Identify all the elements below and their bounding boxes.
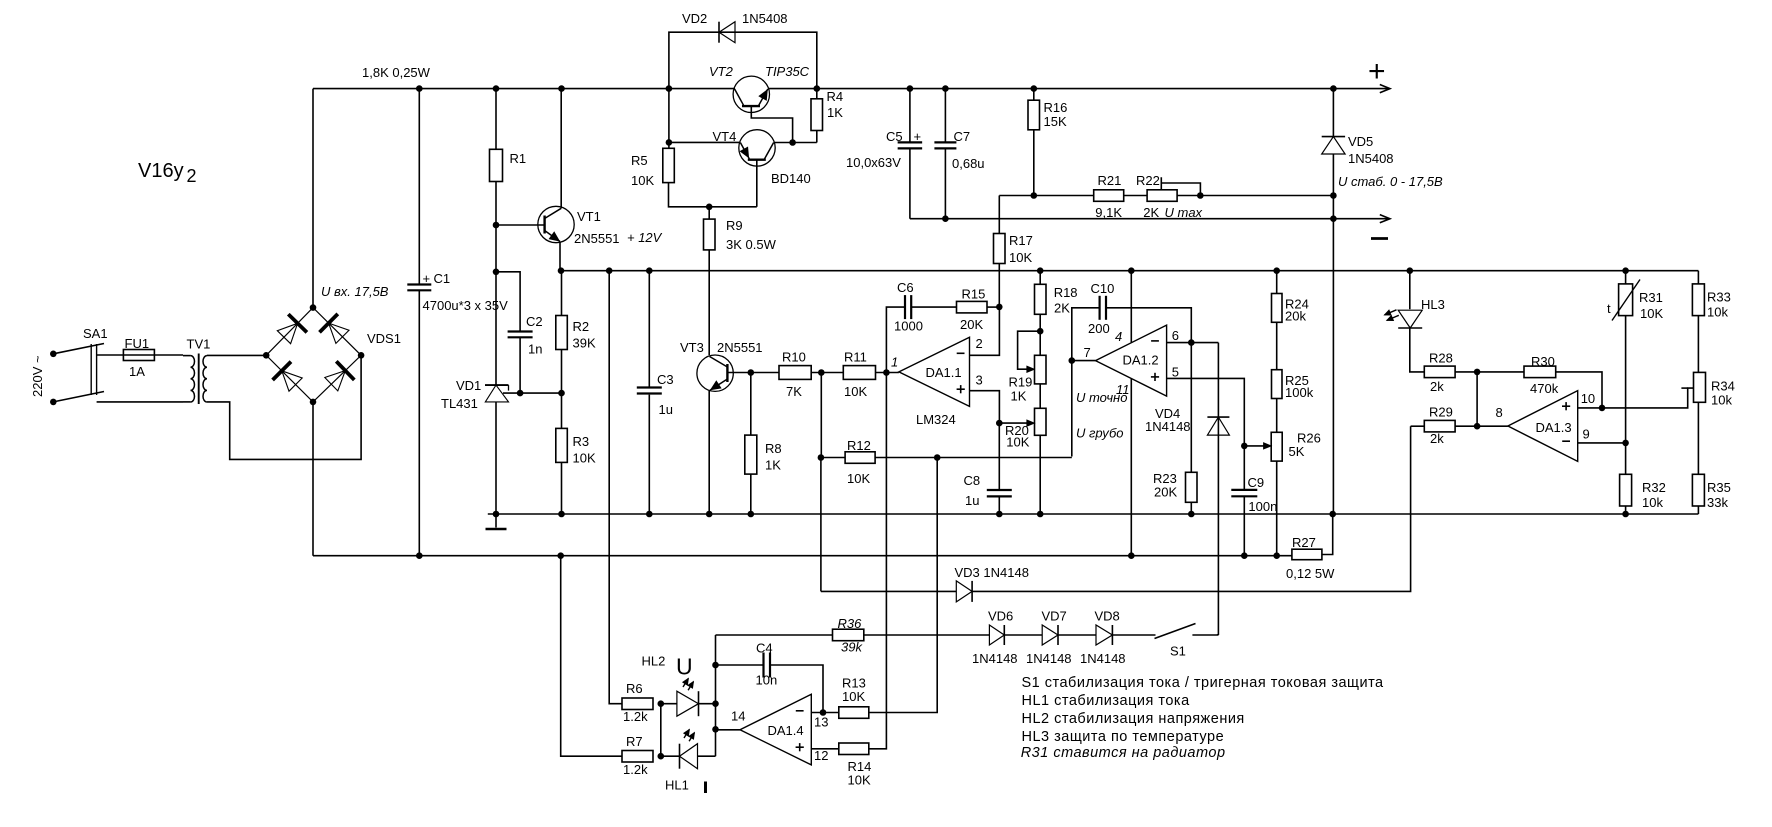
wire pin13 row (811, 712, 839, 714)
svg-text:VT3: VT3 (680, 340, 704, 355)
svg-text:5K: 5K (1289, 444, 1305, 459)
svg-text:R9: R9 (726, 218, 743, 233)
wire VD4 vertical (1217, 343, 1219, 635)
svg-text:R1: R1 (510, 151, 527, 166)
resistor R3 (556, 428, 568, 462)
wire TL431 ref row (503, 392, 562, 394)
svg-text:R2: R2 (573, 319, 590, 334)
svg-text:39k: 39k (841, 640, 863, 655)
potentiometer R34 (1694, 372, 1706, 402)
svg-text:12: 12 (814, 748, 828, 763)
capacitor C1 (407, 285, 431, 291)
svg-text:0,12 5W: 0,12 5W (1286, 566, 1335, 581)
svg-text:DA1.4: DA1.4 (768, 723, 804, 738)
resistor R35 (1692, 474, 1704, 506)
wire C10 riser (1072, 308, 1192, 457)
wire HL3 to R28 (1410, 328, 1425, 372)
svg-text:t: t (1607, 301, 1611, 316)
svg-text:R12: R12 (847, 438, 871, 453)
wire HL3 top lead (1409, 271, 1411, 310)
capacitor C8 (987, 490, 1012, 496)
svg-text:R32: R32 (1642, 480, 1666, 495)
svg-text:2N5551: 2N5551 (717, 340, 763, 355)
diode VD5 (1322, 137, 1345, 154)
resistor R16 (1028, 100, 1040, 130)
resistor R29 (1424, 420, 1455, 432)
wire HL2 leads (661, 703, 716, 705)
svg-text:1N4148: 1N4148 (1145, 419, 1191, 434)
svg-text:7: 7 (1084, 345, 1091, 360)
wire C3 vertical (648, 271, 650, 514)
svg-text:R31: R31 (1639, 290, 1663, 305)
resistor R28 (1424, 366, 1455, 378)
op-amp DA1.3 (1508, 391, 1578, 462)
svg-text:+ 12V: + 12V (627, 230, 663, 245)
wire +12V rail (561, 270, 1698, 272)
wire DA1.4 input riser (715, 635, 717, 756)
wire VD8 to S1 (1112, 634, 1155, 636)
potentiometer R20 (1035, 408, 1047, 435)
svg-text:C9: C9 (1248, 475, 1265, 490)
diode VD3 (956, 581, 972, 602)
svg-text:0,68u: 0,68u (952, 156, 985, 171)
minus sign DA1.1 (957, 352, 965, 354)
svg-text:R29: R29 (1429, 405, 1453, 420)
svg-text:1,8K 0,25W: 1,8K 0,25W (362, 65, 431, 80)
svg-text:39K: 39K (573, 336, 596, 351)
node: VT1 base at R1 (493, 222, 500, 229)
potentiometer R19 (1035, 355, 1047, 384)
svg-text:R16: R16 (1044, 100, 1068, 115)
resistor R24 (1272, 294, 1283, 323)
wire SA1 to TV1 primary bottom (97, 401, 183, 403)
resistor R27 (1292, 549, 1322, 560)
resistor R9 (704, 219, 716, 250)
wire R24 top (1276, 271, 1278, 294)
svg-text:S1: S1 (1170, 644, 1186, 659)
node: junctions on ground rail (493, 511, 1629, 518)
svg-text:10K: 10K (1006, 435, 1029, 450)
op-amp DA1.2 (1096, 325, 1167, 396)
fuse FU1 (123, 350, 154, 361)
svg-text:5: 5 (1172, 365, 1179, 380)
plus sign DA1.1 (957, 385, 965, 393)
wire R15 to R17 node (987, 306, 999, 308)
svg-text:VD7: VD7 (1042, 609, 1067, 624)
wire C7 vertical (944, 89, 946, 219)
svg-text:20K: 20K (960, 317, 983, 332)
node: pin6/R23/C10 (1188, 339, 1195, 346)
svg-text:1n: 1n (528, 342, 542, 357)
svg-text:R15: R15 (962, 287, 986, 302)
svg-text:1N4148: 1N4148 (1026, 651, 1072, 666)
wire R1 bottom to TL431 (495, 182, 497, 386)
svg-text:14: 14 (731, 709, 745, 724)
wire bridge bottom vertex down to minus rail (312, 402, 314, 556)
svg-text:3K 0.5W: 3K 0.5W (726, 237, 777, 252)
wire R16 top (1033, 89, 1035, 101)
wire DA1.1 pin3 (970, 391, 1000, 423)
svg-text:C10: C10 (1091, 281, 1115, 296)
node: C7 bottom (942, 215, 949, 222)
minus sign DA1.3 (1562, 440, 1570, 442)
wire R2 top (561, 271, 563, 316)
minus sign DA1.2 (1151, 340, 1159, 342)
resistor R15 (957, 301, 988, 313)
svg-text:4: 4 (1115, 329, 1122, 344)
svg-text:7K: 7K (786, 384, 802, 399)
wire R21 rail (999, 195, 1333, 197)
svg-text:100n: 100n (1248, 499, 1277, 514)
wire C2 jog (496, 272, 520, 393)
resistor R17 (994, 234, 1006, 264)
svg-text:10k: 10k (1707, 305, 1728, 320)
svg-text:U вх. 17,5В: U вх. 17,5В (321, 284, 389, 299)
ground symbol (486, 514, 507, 529)
svg-text:10K: 10K (844, 384, 867, 399)
wire DA1.3 pin9 row (1578, 442, 1626, 444)
wire minus sense rail (313, 555, 1292, 557)
node: R18/R19 top tap (1037, 328, 1044, 335)
transformer TV1 (183, 354, 207, 405)
svg-text:VD1: VD1 (456, 378, 481, 393)
wire DA1.4 pin14 (716, 729, 741, 731)
wire VD2 loop (669, 32, 817, 88)
shunt regulator VD1 TL431 (485, 385, 509, 402)
svg-text:2K: 2K (1143, 205, 1159, 220)
wire R10-R11 node down to VD3 row (820, 373, 822, 592)
svg-text:DA1.3: DA1.3 (1536, 420, 1572, 435)
wire VT3 emitter (708, 391, 710, 515)
wire R11 to DA1.1 pin1 (876, 372, 899, 374)
svg-text:U точно: U точно (1076, 390, 1127, 405)
transistor VT2 TIP35C (733, 76, 793, 142)
node: pin10/R30 (1599, 405, 1606, 412)
svg-text:R17: R17 (1009, 233, 1033, 248)
wire VD6 to VD7 (1004, 634, 1042, 636)
svg-text:R18: R18 (1054, 285, 1078, 300)
wire DA1.2 pin6 row (1167, 342, 1219, 344)
svg-text:HL3: HL3 (1421, 297, 1445, 312)
capacitor C4 (764, 653, 771, 678)
wire R5 bottom to R9 row (669, 183, 757, 207)
wire R34-R35 (1697, 402, 1699, 474)
resistor R23 (1186, 472, 1198, 502)
wire R16 bottom (1033, 130, 1035, 196)
svg-text:HL1 стабилизация тока: HL1 стабилизация тока (1022, 693, 1191, 709)
svg-text:100k: 100k (1285, 385, 1314, 400)
wire R27 right to ground rail (1322, 514, 1333, 555)
svg-text:R19: R19 (1009, 375, 1033, 390)
wire C4 row (716, 665, 824, 713)
node: bridge vertices (263, 304, 365, 405)
LED HL2 (677, 679, 699, 717)
wire DA1.2 pin4 stub (1130, 271, 1132, 343)
wire R23 top (1190, 343, 1192, 473)
node: R15/R17/pin2 (996, 304, 1003, 311)
svg-text:+: + (914, 129, 922, 144)
svg-text:R31 ставится на радиатор: R31 ставится на радиатор (1021, 745, 1226, 761)
resistor R1 (490, 149, 503, 181)
svg-text:10n: 10n (756, 673, 778, 688)
svg-text:TL431: TL431 (441, 396, 478, 411)
node: pin7/C10 (1069, 357, 1076, 364)
bridge rectifier VDS1 diode bottom-right (325, 361, 355, 391)
svg-text:2N5551: 2N5551 (574, 231, 620, 246)
svg-text:1K: 1K (827, 105, 843, 120)
transistor VT4 BD140 (739, 130, 775, 207)
svg-text:20k: 20k (1285, 309, 1306, 324)
node: C2 top on R1 line (493, 269, 500, 276)
svg-text:FU1: FU1 (125, 336, 150, 351)
resistor R18 (1035, 284, 1047, 314)
transistor VT1 2N5551 (538, 206, 574, 242)
wire pin9 node to R32 (1625, 443, 1627, 474)
wire R1 top (495, 89, 497, 150)
svg-text:R30: R30 (1531, 354, 1555, 369)
wire R19 to R20 (1039, 384, 1041, 408)
svg-text:470k: 470k (1530, 381, 1559, 396)
resistor R32 (1620, 474, 1632, 506)
wire R18 bottom to R19 (1039, 314, 1041, 355)
wire R31 top (1625, 271, 1627, 284)
svg-text:U грубо: U грубо (1076, 426, 1124, 441)
svg-text:VT1: VT1 (577, 209, 601, 224)
arrow R19 wiper (1027, 366, 1034, 372)
wire R19 wiper loop (1018, 331, 1041, 369)
wire R28-R29 riser (1476, 372, 1478, 426)
wire TV1 secondary bottom to bridge right vertex (207, 355, 361, 459)
resistor R21 (1094, 190, 1124, 202)
wire C9 vertical (1243, 446, 1245, 556)
wire R20 wiper (999, 422, 1030, 424)
svg-text:R10: R10 (782, 350, 806, 365)
wire R26 wiper (1244, 445, 1266, 447)
wire R35 bottom to ground rail (1697, 506, 1699, 514)
wire bridge top vertex to +unreg rail corner (312, 89, 314, 308)
resistor R6 (622, 698, 653, 710)
node: VT3 base / R8 / R10 (748, 369, 755, 376)
trimmer R22 (1147, 190, 1177, 202)
svg-text:R35: R35 (1707, 480, 1731, 495)
plus sign DA1.4 (796, 743, 804, 751)
svg-text:1N4148: 1N4148 (972, 651, 1018, 666)
transistor VT3 2N5551 (697, 355, 733, 391)
wire minus arrow line (1333, 218, 1389, 220)
svg-text:10: 10 (1581, 391, 1595, 406)
svg-text:C5: C5 (886, 129, 903, 144)
wire R17 top from R21 rail (998, 196, 1000, 234)
svg-text:R36: R36 (838, 616, 863, 631)
resistor R4 (811, 99, 823, 131)
svg-text:R3: R3 (573, 434, 590, 449)
wire C8 vertical (998, 423, 1000, 514)
resistor R33 (1692, 284, 1704, 316)
wire R3 top (561, 393, 563, 428)
node: ref row junctions (517, 390, 565, 397)
wire TL431 cathode down to gnd rail (495, 402, 497, 514)
wire R33-R34 (1697, 316, 1699, 373)
svg-text:20K: 20K (1154, 485, 1177, 500)
capacitor C3 (637, 388, 662, 394)
svg-text:DA1.2: DA1.2 (1123, 353, 1159, 368)
svg-text:1u: 1u (659, 402, 673, 417)
capacitor C10 (1100, 296, 1106, 320)
bridge rectifier VDS1 diode top-left (277, 314, 307, 344)
svg-text:1N4148: 1N4148 (1080, 651, 1126, 666)
svg-text:R4: R4 (827, 89, 844, 104)
svg-text:3: 3 (976, 372, 983, 387)
resistor R8 (745, 435, 757, 474)
svg-text:1A: 1A (129, 364, 145, 379)
wire R4 top (816, 89, 818, 99)
wire R9 top stub (708, 207, 710, 219)
wire VT4 collector to R4 node (774, 142, 817, 144)
capacitor C5 (898, 142, 923, 148)
svg-text:S1 стабилизация тока / тригерн: S1 стабилизация тока / тригерная токовая… (1022, 675, 1385, 691)
switch S1 (1155, 624, 1196, 639)
wire DA1.2 pin11 stub (1130, 379, 1132, 556)
svg-text:VD8: VD8 (1095, 609, 1120, 624)
wire R32 bottom (1625, 506, 1627, 514)
wire R23 bottom (1190, 502, 1192, 514)
svg-text:10K: 10K (847, 471, 870, 486)
arrow - output (1380, 215, 1390, 223)
LED HL1 (680, 730, 698, 769)
diode VD2 (719, 22, 735, 43)
svg-text:9: 9 (1583, 427, 1590, 442)
wire DA1.2 pin7 to riser (1072, 360, 1096, 362)
svg-text:C1: C1 (434, 271, 451, 286)
svg-text:V16y: V16y (138, 160, 184, 182)
svg-text:+: + (423, 271, 431, 286)
bridge rectifier VDS1 diode top-right (320, 314, 350, 344)
resistor R2 (556, 316, 568, 350)
node: pin3 / R20 wiper / C8 (996, 420, 1003, 427)
wire R9 to VT3 collector (708, 250, 710, 355)
svg-text:1000: 1000 (894, 319, 923, 334)
node: DA1.1 pin1 node (883, 369, 890, 376)
svg-text:TV1: TV1 (187, 337, 211, 352)
svg-text:BD140: BD140 (771, 171, 811, 186)
svg-text:10K: 10K (842, 689, 865, 704)
svg-text:C7: C7 (954, 129, 971, 144)
LED HL3 (1385, 310, 1423, 328)
svg-text:220V ~: 220V ~ (30, 355, 45, 397)
svg-text:R8: R8 (765, 441, 782, 456)
wire C6 row (886, 307, 956, 372)
svg-text:TIP35C: TIP35C (765, 64, 810, 79)
plus sign DA1.2 (1151, 373, 1159, 381)
svg-text:U: U (676, 654, 693, 680)
wire VD3 row (821, 426, 1411, 591)
svg-text:C3: C3 (657, 372, 674, 387)
resistor R30 (1524, 366, 1556, 378)
wire R18 top (1039, 271, 1041, 285)
svg-text:1.2k: 1.2k (623, 762, 648, 777)
svg-text:C6: C6 (897, 280, 914, 295)
wire VT3 base row (727, 372, 779, 374)
wire R29 to DA1.3 pin8 (1455, 425, 1508, 427)
svg-text:R27: R27 (1292, 535, 1316, 550)
diode VD8 (1096, 625, 1112, 645)
diode VD7 (1042, 625, 1058, 645)
capacitor C9 (1231, 490, 1257, 496)
wire VT1 base (496, 224, 545, 226)
svg-text:LM324: LM324 (916, 412, 956, 427)
svg-text:1.2k: 1.2k (623, 709, 648, 724)
svg-text:VDS1: VDS1 (367, 331, 401, 346)
svg-text:2k: 2k (1430, 431, 1444, 446)
svg-text:SA1: SA1 (83, 326, 108, 341)
resistor R5 (663, 148, 675, 182)
svg-text:R34: R34 (1711, 379, 1735, 394)
svg-text:R28: R28 (1429, 351, 1453, 366)
wire R28 to R30 (1455, 371, 1524, 373)
arrow + output (1380, 85, 1390, 93)
svg-text:VD2: VD2 (682, 11, 707, 26)
wire R14 right riser to pin1 net (869, 373, 887, 749)
svg-text:1: 1 (891, 355, 898, 370)
capacitor C2 (508, 332, 533, 338)
wire minus output rail (910, 218, 1334, 220)
svg-text:10K: 10K (573, 451, 596, 466)
node: R21 rail junctions (1031, 192, 1337, 199)
svg-text:VT2: VT2 (709, 64, 734, 79)
svg-text:10K: 10K (631, 173, 654, 188)
svg-text:2: 2 (976, 336, 983, 351)
resistor R13 (839, 707, 869, 719)
plus sign DA1.3 (1562, 402, 1570, 410)
wire VT1 emitter (559, 242, 561, 271)
svg-text:10K: 10K (1009, 250, 1032, 265)
wire R36 to VD6 (864, 634, 990, 636)
resistor R10 (779, 366, 811, 380)
R34 wiper tail (1681, 387, 1687, 389)
wire R20 bottom (1039, 435, 1041, 514)
switch SA1 (53, 344, 104, 402)
svg-text:R11: R11 (844, 350, 867, 365)
wire VD7 to VD8 (1058, 634, 1096, 636)
svg-text:6: 6 (1172, 328, 1179, 343)
node: VD5 at minus rail (1330, 215, 1337, 222)
wire +unreg top rail right of VT2 (768, 88, 1389, 90)
wire R26 bottom (1276, 461, 1278, 556)
wire analog ground rail (488, 513, 1699, 515)
op-amp DA1.4 (740, 694, 811, 765)
wire R6-R7 link vertical (660, 704, 662, 757)
wire R31 to pin9 node (1625, 316, 1627, 443)
wire C5 vertical (909, 89, 911, 219)
diode VD4 (1207, 417, 1229, 435)
wire VD2 node down to R5 (668, 89, 670, 149)
svg-text:33k: 33k (1707, 495, 1728, 510)
wire R6 feed from +12V (609, 271, 622, 704)
wire DA1.1 pin2 (970, 307, 1000, 355)
resistor R36 (833, 629, 864, 641)
wire R25-R26 (1276, 399, 1278, 433)
capacitor C6 (905, 295, 911, 319)
svg-text:VD5: VD5 (1348, 134, 1373, 149)
wire S1 right to VD4 line (1192, 634, 1217, 635)
node: R29/DA1.3 input (1474, 423, 1481, 430)
arrow R26 wiper (1264, 443, 1271, 449)
svg-text:10K: 10K (848, 773, 871, 788)
svg-text:VD6: VD6 (988, 609, 1013, 624)
bridge rectifier VDS1 diode bottom-left (273, 362, 303, 392)
wire pin12 row (811, 748, 839, 750)
wire C1 vertical (418, 89, 420, 556)
